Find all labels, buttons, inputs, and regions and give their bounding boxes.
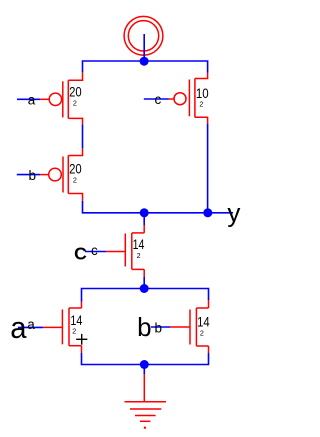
- svg-text:c: c: [155, 92, 162, 107]
- power supply VDD symbol: [124, 16, 163, 55]
- wire input a (bottom): [18, 326, 43, 328]
- svg-text:14: 14: [197, 314, 210, 330]
- svg-text:c: c: [91, 243, 98, 258]
- ground dot: [144, 427, 146, 429]
- svg-text:y: y: [227, 198, 240, 228]
- wire vdd stub: [143, 34, 145, 61]
- svg-text:a: a: [27, 317, 35, 332]
- wire output rail y: [83, 201, 234, 213]
- svg-text:b: b: [137, 312, 151, 342]
- node output junction right: [203, 208, 212, 217]
- svg-text:20: 20: [69, 84, 82, 100]
- pmos transistor c 10/2: [169, 73, 208, 124]
- svg-text:2: 2: [199, 100, 203, 109]
- wire top rail: [83, 61, 208, 73]
- wire middle rail: [82, 289, 209, 302]
- wire pmos a to pmos b: [82, 124, 84, 148]
- svg-text:2: 2: [73, 176, 77, 185]
- node ground junction: [140, 360, 149, 369]
- svg-text:20: 20: [69, 161, 82, 177]
- nmos transistor b 14/2: [170, 300, 209, 353]
- svg-text:b: b: [155, 320, 163, 335]
- wire nmos c drain: [143, 213, 145, 225]
- nmos transistor a 14/2: [43, 302, 82, 354]
- wire input b: [17, 174, 40, 176]
- node middle junction: [140, 284, 149, 293]
- wire pmos c drain: [207, 123, 209, 212]
- node vdd junction: [140, 57, 149, 66]
- wire nmos c source: [143, 277, 145, 289]
- svg-text:a: a: [28, 92, 36, 107]
- svg-text:2: 2: [137, 251, 141, 260]
- pmos transistor a 20/2: [40, 72, 83, 124]
- node output junction left: [140, 208, 149, 217]
- nmos transistor c 14/2: [106, 225, 144, 277]
- pmos transistor b 20/2: [40, 148, 83, 200]
- wire bottom rail: [82, 353, 209, 365]
- bulk plus mark on nmos a: [76, 334, 87, 345]
- svg-text:2: 2: [200, 329, 204, 338]
- svg-text:b: b: [29, 168, 37, 183]
- svg-text:2: 2: [73, 99, 77, 108]
- svg-text:14: 14: [133, 236, 145, 252]
- wire input c (top right): [144, 98, 169, 100]
- wire input c (middle): [85, 251, 106, 253]
- svg-text:C: C: [74, 243, 87, 263]
- wire input a: [17, 98, 40, 100]
- wire ground stub: [143, 365, 145, 375]
- svg-text:2: 2: [72, 327, 76, 336]
- wire input b (bottom): [151, 326, 170, 328]
- ground symbol: [125, 374, 167, 421]
- svg-text:a: a: [10, 310, 27, 345]
